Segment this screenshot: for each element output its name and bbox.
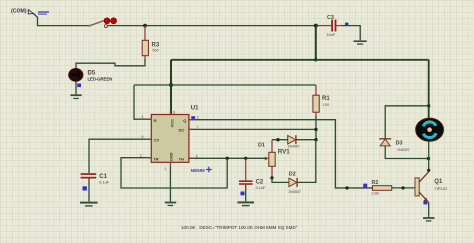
svg-text:Q1: Q1 (434, 179, 443, 185)
wire to U1 pin4 (134, 85, 151, 119)
wire D3 top (385, 106, 429, 139)
node D3 bottom tap (427, 157, 430, 160)
capacitor C3 (318, 15, 342, 37)
wire emitter to ground (428, 202, 430, 217)
resistor R3 (142, 26, 160, 61)
ground (C3) (354, 40, 367, 44)
svg-text:R2: R2 (372, 180, 379, 186)
wire D5 to ground (75, 81, 77, 94)
svg-text:NE555: NE555 (191, 168, 205, 173)
svg-text:D1: D1 (258, 143, 265, 149)
node D3 top tap (427, 104, 430, 107)
motor M1 (416, 118, 444, 141)
blue marker D5 (77, 84, 81, 88)
diode D2 (288, 171, 301, 193)
svg-text:1.8K: 1.8K (371, 190, 380, 195)
svg-text:2: 2 (140, 154, 142, 158)
svg-text:GND: GND (169, 152, 174, 161)
wire terminal to switch (34, 14, 90, 26)
svg-text:10uF: 10uF (326, 33, 335, 37)
wire TR loop (121, 158, 227, 188)
wire C2 to ground (245, 185, 247, 202)
wire motor branch vertical (428, 60, 430, 119)
diode D3 (379, 139, 409, 152)
wire U1 pin1 to ground (169, 162, 171, 166)
svg-text:RV1: RV1 (278, 149, 290, 156)
svg-text:U1: U1 (191, 105, 199, 111)
wire C1 to ground (88, 179, 90, 202)
svg-text:0.1uF: 0.1uF (99, 181, 109, 185)
wire motor bottom to collector (428, 141, 430, 171)
resistor R2 (371, 180, 392, 196)
svg-text:0.1uF: 0.1uF (256, 186, 266, 190)
wire bus y=85 (134, 84, 316, 86)
LED D5 (69, 69, 112, 82)
ground (U1) (165, 202, 176, 207)
wire R2 to base (392, 187, 415, 189)
node power tap (314, 24, 318, 28)
ground (C1) (80, 202, 98, 207)
node D1 cathode (314, 138, 317, 141)
svg-text:4: 4 (142, 115, 144, 119)
wire D2 cathode up (297, 140, 316, 183)
wire Q output pin3 (189, 120, 372, 188)
svg-text:VCC: VCC (169, 119, 174, 128)
node TR-TH link (226, 157, 229, 160)
cursor marker (206, 167, 212, 173)
blue marker C1 (83, 186, 87, 190)
node base wire left (345, 186, 348, 189)
wire R3 to D5 (76, 60, 145, 69)
blue marker R2 (363, 184, 367, 188)
terminal (COM) (11, 8, 49, 14)
svg-text:7: 7 (197, 125, 199, 129)
node RV1 bottom (270, 176, 273, 179)
wire pin1 ground lead (169, 167, 171, 202)
ground (C2) (237, 201, 254, 206)
svg-text:D3: D3 (396, 140, 403, 146)
svg-text:TIP122: TIP122 (434, 186, 448, 191)
svg-text:Q: Q (183, 118, 186, 123)
svg-text:TH: TH (179, 156, 184, 161)
node DC-R1 (314, 128, 317, 131)
wire D3 bottom (385, 146, 429, 159)
svg-text:C2: C2 (256, 179, 264, 185)
wire C3 to ground (342, 26, 361, 41)
ground (Q1) (423, 217, 434, 222)
wire RV1 to D2 (272, 178, 289, 183)
svg-text:1N4007: 1N4007 (288, 190, 301, 194)
blue marker Q1 (423, 201, 427, 205)
wire power vertical x=315.8 (315, 26, 317, 60)
ground (D5) (70, 94, 81, 99)
svg-text:CV: CV (154, 137, 160, 142)
node y85 VCC (169, 83, 173, 87)
svg-text:3: 3 (197, 116, 199, 120)
svg-text:100: 100 (323, 102, 330, 107)
node base wire right (401, 186, 404, 189)
svg-text:(COM): (COM) (11, 8, 27, 14)
transistor Q1 (415, 172, 448, 203)
svg-text:8: 8 (173, 110, 175, 114)
op-amp U1 NE555 (147, 105, 200, 162)
svg-text:DC: DC (179, 127, 185, 132)
wire R1 bottom vertical (315, 116, 317, 140)
svg-text:6: 6 (196, 154, 198, 158)
capacitor C2 (239, 158, 266, 190)
svg-text:1N4007: 1N4007 (397, 148, 410, 152)
blue marker C3 (345, 23, 348, 26)
resistor R1 (313, 85, 330, 117)
node R3 tap (143, 24, 147, 28)
trimpot RV1 (265, 140, 290, 178)
svg-text:C1: C1 (99, 174, 107, 180)
diode D1 (258, 135, 300, 148)
capacitor C1 (81, 173, 110, 184)
svg-text:LED-GREEN: LED-GREEN (88, 77, 113, 82)
svg-text:100.0K DESC="TRIMPOT 100.0K: 100.0K DESC="TRIMPOT 100.0K OHM 6MM SQ S… (181, 225, 298, 230)
wire bus y=60 (171, 59, 429, 61)
svg-text:R: R (154, 118, 157, 123)
node C2 tap (244, 157, 247, 160)
blue marker C2 (241, 192, 245, 196)
svg-text:560: 560 (152, 48, 159, 53)
wire DC bus pin7 (189, 128, 316, 130)
node D1 anode (276, 138, 279, 141)
wire CV pin5 to C1 (89, 139, 151, 173)
svg-text:TR: TR (153, 156, 158, 161)
wire VCC bus y=26 (107, 25, 316, 27)
node collector (427, 169, 430, 172)
node y60 (314, 58, 317, 61)
svg-text:1: 1 (164, 167, 166, 171)
blue marker pin3 (191, 116, 195, 119)
svg-text:D2: D2 (289, 171, 296, 177)
switch SW1 (88, 18, 116, 28)
wire TH row to wiper (189, 157, 265, 159)
wire VCC vertical to U1 pin8 (170, 60, 172, 115)
svg-text:C3: C3 (327, 15, 334, 21)
wire D1 row (272, 139, 316, 141)
